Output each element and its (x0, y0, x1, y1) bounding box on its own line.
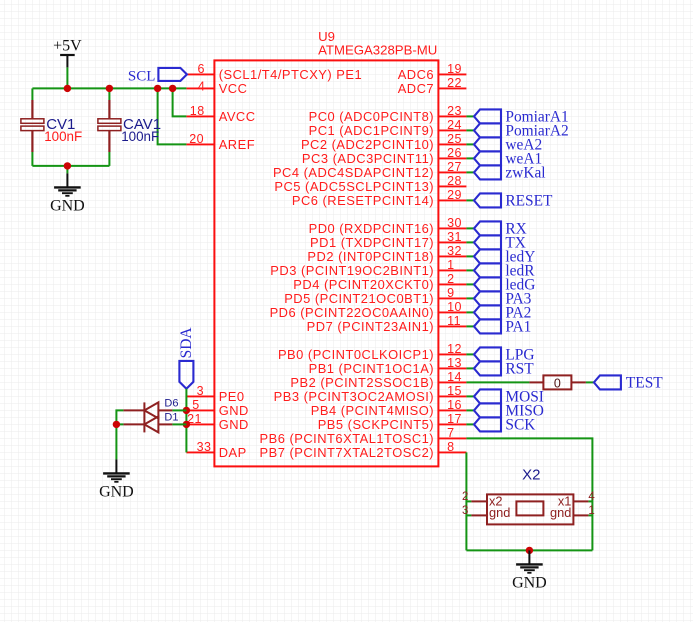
svg-text:8: 8 (447, 440, 454, 454)
svg-text:TEST: TEST (626, 375, 663, 392)
junction diode GND (113, 421, 120, 428)
svg-text:15: 15 (447, 384, 462, 398)
svg-text:17: 17 (447, 412, 462, 426)
svg-text:D6: D6 (164, 397, 178, 409)
net label flag PA1 (474, 319, 501, 333)
svg-text:GND: GND (219, 417, 249, 432)
wire to GND symbol (diodes) (115, 424, 117, 459)
svg-text:7: 7 (447, 426, 454, 440)
svg-text:26: 26 (447, 146, 462, 160)
svg-text:10: 10 (447, 300, 462, 314)
svg-text:PD4 (PCINT20XCKT0): PD4 (PCINT20XCKT0) (293, 277, 434, 292)
wire stub crystal pin1 (588, 514, 592, 516)
pin 32 PD2 (INT0PCINT18) (right) (307, 244, 466, 264)
wire diode cathodes to GND (116, 410, 123, 424)
pin 27 PC4 (ADC4SDAPCINT12) (right) (273, 160, 466, 180)
svg-text:ADC6: ADC6 (398, 67, 434, 82)
svg-text:PB6 (PCINT6XTAL1TOSC1): PB6 (PCINT6XTAL1TOSC1) (260, 431, 435, 446)
pin 6 (SCL1/T4/PTCXY) PE1 (left) (186, 62, 362, 82)
svg-text:gnd: gnd (550, 505, 571, 520)
svg-text:3: 3 (462, 505, 468, 517)
pin 5 GND (left) (186, 398, 248, 418)
pin 30 PD0 (RXDPCINT16) (right) (309, 216, 467, 236)
crystal X2 (471, 494, 588, 524)
wire stub to label zwKal (466, 171, 474, 173)
svg-text:12: 12 (447, 342, 462, 356)
capacitor CAV1 (98, 100, 161, 152)
wire SDA vertical net (185, 389, 187, 453)
pin 3 PE0 (left) (186, 384, 244, 404)
svg-text:(SCL1/T4/PTCXY) PE1: (SCL1/T4/PTCXY) PE1 (219, 67, 362, 82)
svg-text:PA1: PA1 (505, 319, 531, 336)
svg-text:0: 0 (554, 377, 561, 391)
resistor R (0 ohm) (529, 375, 586, 389)
svg-text:3: 3 (197, 384, 204, 398)
svg-text:13: 13 (447, 356, 462, 370)
net label text SDA (rotated) (178, 327, 195, 359)
wire stub crystal pin2 (466, 500, 471, 502)
wire stub to label MISO (466, 409, 474, 411)
pin 12 PB0 (PCINT0CLKOICP1) (right) (278, 342, 466, 362)
pin 16 PB4 (PCINT4MISO) (right) (311, 398, 467, 418)
net label flag PomiarA2 (474, 123, 501, 137)
svg-text:16: 16 (447, 398, 462, 412)
svg-text:1: 1 (588, 505, 594, 517)
svg-text:AVCC: AVCC (219, 109, 256, 124)
svg-text:PB7 (PCINT7XTAL2TOSC2): PB7 (PCINT7XTAL2TOSC2) (260, 445, 435, 460)
wire stub to label PomiarA2 (466, 129, 474, 131)
wire stub to label weA2 (466, 143, 474, 145)
pin 1 PD3 (PCINT19OC2BINT1) (right) (270, 258, 466, 278)
svg-text:SDA: SDA (178, 327, 195, 359)
svg-text:PD2 (INT0PCINT18): PD2 (INT0PCINT18) (307, 249, 434, 264)
wire stub to label MOSI (466, 395, 474, 397)
junction AVCC/VCC (169, 85, 176, 92)
pin 20 AREF (left) (186, 132, 255, 152)
net label flag MOSI (474, 389, 501, 403)
svg-text:PC2 (ADC2PCINT10): PC2 (ADC2PCINT10) (301, 137, 434, 152)
pin 15 PB3 (PCINT3OC2AMOSI) (right) (274, 384, 467, 404)
pin 4 VCC (left) (186, 80, 247, 97)
pin 17 PB5 (SCKPCINT5) (right) (318, 412, 467, 432)
wire AVCC branch (173, 88, 187, 116)
pin 13 PB1 (PCINT1OC1A) (right) (309, 356, 467, 376)
svg-text:2: 2 (462, 491, 468, 503)
pin 10 PD6 (PCINT22OC0AAIN0) (right) (270, 300, 467, 320)
svg-text:RST: RST (505, 361, 534, 378)
svg-text:PD1 (TXDPCINT17): PD1 (TXDPCINT17) (310, 235, 434, 250)
net label flag TX (474, 235, 501, 249)
svg-text:18: 18 (190, 104, 205, 118)
wire to GND symbol (66, 166, 68, 174)
net label flag PA3 (474, 291, 501, 305)
net label flag PA2 (474, 305, 501, 319)
pin 26 PC3 (ADC3PCINT11) (right) (302, 146, 466, 166)
wire pin14 to resistor (466, 381, 529, 383)
wire stub to label RX (466, 227, 474, 229)
wire stub to label PomiarA1 (466, 115, 474, 117)
wire stub crystal pin3 (466, 514, 471, 516)
svg-text:25: 25 (447, 132, 462, 146)
wire resistor to TEST label (586, 381, 594, 383)
pin 25 PC2 (ADC2PCINT10) (right) (301, 132, 466, 152)
svg-text:PC4 (ADC4SDAPCINT12): PC4 (ADC4SDAPCINT12) (273, 165, 434, 180)
pin 14 PB2 (PCINT2SSOC1B) (right) (290, 370, 466, 390)
wire stub to label RESET (466, 199, 474, 201)
svg-text:PC6 (RESETPCINT14): PC6 (RESETPCINT14) (292, 193, 434, 208)
wire CAV1 top (108, 88, 110, 100)
svg-text:14: 14 (447, 370, 462, 384)
pin 8 PB7 (PCINT7XTAL2TOSC2) (right) (260, 440, 467, 460)
wire stub crystal pin4 (588, 500, 592, 502)
IC U9 ATMEGA328PB-MU body (214, 60, 438, 466)
svg-text:zwKal: zwKal (505, 165, 545, 182)
pin 9 PD5 (PCINT21OC0BT1) (right) (284, 286, 466, 306)
pin 33 DAP (left) (186, 440, 246, 460)
wire +5V to VCC net (66, 67, 68, 88)
wire stub to label SCK (466, 423, 474, 425)
svg-text:6: 6 (198, 62, 205, 76)
svg-text:PC5 (ADC5SCLPCINT13): PC5 (ADC5SCLPCINT13) (274, 179, 434, 194)
svg-text:PB4 (PCINT4MISO): PB4 (PCINT4MISO) (311, 403, 434, 418)
svg-text:2: 2 (447, 272, 454, 286)
svg-text:100nF: 100nF (121, 129, 159, 144)
junction pin21/diode D1 (183, 421, 190, 428)
svg-text:23: 23 (447, 104, 462, 118)
net label flag zwKal (474, 165, 501, 179)
svg-text:ADC7: ADC7 (398, 81, 434, 96)
capacitor CV1 (21, 100, 82, 152)
pin 7 PB6 (PCINT6XTAL1TOSC1) (right) (260, 426, 467, 446)
pin 18 AVCC (left) (186, 104, 255, 124)
svg-text:32: 32 (447, 244, 462, 258)
svg-text:PB2 (PCINT2SSOC1B): PB2 (PCINT2SSOC1B) (290, 375, 434, 390)
pin 28 PC5 (ADC5SCLPCINT13) (right) (274, 174, 466, 194)
svg-text:gnd: gnd (489, 505, 510, 520)
net label flag RST (474, 361, 501, 375)
net label flag TEST (594, 375, 621, 389)
svg-text:PC0 (ADC0PCINT8): PC0 (ADC0PCINT8) (309, 109, 434, 124)
svg-text:PB0 (PCINT0CLKOICP1): PB0 (PCINT0CLKOICP1) (278, 347, 434, 362)
pin 24 PC1 (ADC1PCINT9) (right) (309, 118, 467, 138)
wire stub to label ledY (466, 255, 474, 257)
svg-text:5: 5 (192, 398, 199, 412)
junction +5V/VCC (64, 85, 71, 92)
power symbol +5V (53, 38, 82, 68)
wire diode D6 anode to net (172, 409, 186, 411)
svg-text:9: 9 (447, 286, 454, 300)
svg-text:PB3 (PCINT3OC2AMOSI): PB3 (PCINT3OC2AMOSI) (274, 389, 434, 404)
wire stub to label LPG (466, 353, 474, 355)
wire stub to label ledR (466, 269, 474, 271)
pin 29 PC6 (RESETPCINT14) (right) (292, 188, 467, 208)
wire stub to label PA1 (466, 325, 474, 327)
svg-text:ATMEGA328PB-MU: ATMEGA328PB-MU (318, 42, 437, 57)
wire CV1 top (31, 88, 33, 100)
diode D1 (123, 402, 178, 432)
svg-text:VCC: VCC (219, 81, 248, 96)
junction CAV1/VCC (106, 85, 113, 92)
svg-text:GND: GND (512, 575, 547, 592)
net label flag LPG (474, 347, 501, 361)
wire stub to label PA3 (466, 297, 474, 299)
svg-text:20: 20 (189, 132, 204, 146)
net label flag MISO (474, 403, 501, 417)
net label flag SDA (vertical) (179, 361, 193, 389)
net label flag ledG (474, 277, 501, 291)
pin 11 PD7 (PCINT23AIN1) (right) (307, 314, 467, 334)
pin 31 PD1 (TXDPCINT17) (right) (310, 230, 466, 250)
svg-text:PD6 (PCINT22OC0AAIN0): PD6 (PCINT22OC0AAIN0) (270, 305, 435, 320)
junction bottom GND (526, 547, 533, 554)
wire CAV1 bottom (108, 152, 110, 166)
svg-text:31: 31 (447, 230, 462, 244)
wire stub to label ledG (466, 283, 474, 285)
svg-text:PD5 (PCINT21OC0BT1): PD5 (PCINT21OC0BT1) (284, 291, 434, 306)
svg-text:30: 30 (447, 216, 462, 230)
net label flag ledR (474, 263, 501, 277)
ground symbol GND (crystal) (512, 550, 547, 591)
wire diode D1 anode to net (172, 423, 186, 425)
svg-text:SCL: SCL (128, 68, 156, 84)
wire stub to label PA2 (466, 311, 474, 313)
ground symbol GND (diodes) (99, 459, 134, 500)
junction pin5/diode D6 (183, 407, 190, 414)
svg-text:24: 24 (447, 118, 462, 132)
svg-text:PB1 (PCINT1OC1A): PB1 (PCINT1OC1A) (309, 361, 434, 376)
svg-text:28: 28 (447, 174, 462, 188)
svg-text:33: 33 (197, 440, 212, 454)
ground symbol GND (capacitors) (50, 173, 85, 214)
wire CV1 bottom (31, 152, 33, 166)
svg-text:27: 27 (447, 160, 462, 174)
svg-text:PB5 (SCKPCINT5): PB5 (SCKPCINT5) (318, 417, 434, 432)
pin 23 PC0 (ADC0PCINT8) (right) (309, 104, 467, 124)
net label flag RESET (474, 193, 501, 207)
pin 19 ADC6 (right) (398, 62, 467, 82)
svg-text:1: 1 (447, 258, 454, 272)
svg-text:4: 4 (588, 491, 595, 503)
junction caps GND (64, 162, 71, 169)
svg-text:AREF: AREF (219, 137, 255, 152)
net label flag RX (474, 221, 501, 235)
net label flag SCK (474, 417, 501, 431)
svg-text:11: 11 (447, 314, 461, 328)
wire GND net bottom (466, 549, 592, 551)
pin 22 ADC7 (right) (398, 76, 467, 96)
svg-text:GND: GND (219, 403, 249, 418)
svg-text:PC1 (ADC1PCINT9): PC1 (ADC1PCINT9) (309, 123, 434, 138)
svg-text:GND: GND (99, 484, 134, 501)
pin 21 GND (left) (186, 412, 248, 432)
svg-text:PD3 (PCINT19OC2BINT1): PD3 (PCINT19OC2BINT1) (270, 263, 434, 278)
diode D6 (123, 397, 178, 418)
wire pin8 (XTAL2) net (465, 452, 467, 550)
wire stub to label RST (466, 367, 474, 369)
svg-text:X2: X2 (522, 466, 540, 483)
svg-text:PE0: PE0 (219, 389, 245, 404)
net label flag weA2 (474, 137, 501, 151)
net label flag weA1 (474, 151, 501, 165)
wire GND net horizontal (caps) (32, 165, 109, 167)
svg-text:SCK: SCK (505, 417, 535, 434)
pin 2 PD4 (PCINT20XCKT0) (right) (293, 272, 466, 292)
svg-text:4: 4 (198, 80, 205, 94)
svg-text:PD7 (PCINT23AIN1): PD7 (PCINT23AIN1) (307, 319, 434, 334)
svg-text:19: 19 (447, 62, 462, 76)
net label flag PomiarA1 (474, 109, 501, 123)
svg-text:PC3 (ADC3PCINT11): PC3 (ADC3PCINT11) (302, 151, 434, 166)
wire pin7 (XTAL1) net (466, 438, 592, 550)
net label flag ledY (474, 249, 501, 263)
svg-text:100nF: 100nF (44, 129, 82, 144)
net label flag SCL (158, 68, 187, 81)
svg-text:DAP: DAP (219, 445, 247, 460)
svg-text:29: 29 (447, 188, 462, 202)
svg-text:RESET: RESET (505, 193, 553, 210)
wire stub to label weA1 (466, 157, 474, 159)
svg-text:+5V: +5V (53, 38, 82, 55)
wire AREF branch (158, 88, 187, 144)
svg-text:PD0 (RXDPCINT16): PD0 (RXDPCINT16) (309, 221, 434, 236)
wire VCC net horizontal (32, 87, 186, 89)
junction AREF/VCC (154, 85, 161, 92)
svg-text:D1: D1 (164, 412, 178, 424)
wire stub to label TX (466, 241, 474, 243)
svg-text:GND: GND (50, 198, 85, 215)
svg-text:22: 22 (447, 76, 462, 90)
